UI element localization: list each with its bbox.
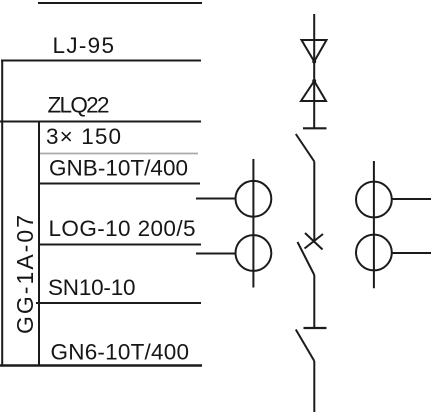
svg-text:GNB-10T/400: GNB-10T/400 — [49, 156, 188, 181]
svg-text:SN10-10: SN10-10 — [48, 275, 136, 300]
svg-text:GG-1A-07: GG-1A-07 — [12, 215, 38, 334]
svg-text:LJ-95: LJ-95 — [53, 33, 115, 58]
svg-text:GN6-10T/400: GN6-10T/400 — [51, 339, 190, 364]
svg-text:ZLQ22: ZLQ22 — [48, 92, 110, 117]
svg-text:3× 150: 3× 150 — [46, 124, 121, 149]
svg-text:LOG-10 200/5: LOG-10 200/5 — [49, 216, 196, 241]
